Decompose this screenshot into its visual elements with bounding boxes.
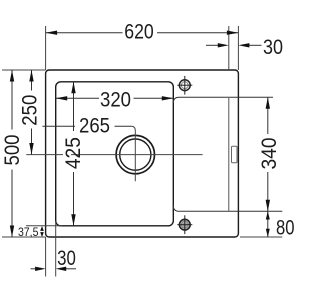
svg-text:265: 265 [79,115,110,138]
dimension 265 leader [42,125,131,127]
dimension 30 bottom lines [31,268,77,270]
tap hole crosshair bottom [177,215,192,234]
bowl outline [56,82,174,226]
dimension 37,5 arrows [40,226,44,237]
svg-text:30: 30 [263,36,283,59]
extension line: sink right edge extended up [237,26,239,70]
svg-text:30: 30 [57,247,76,270]
svg-text:340: 340 [258,138,281,170]
extension line: sink top edge extended left [2,69,46,71]
dimension 250 arrows [29,70,33,155]
dimension 620 arrows [46,31,239,35]
ledge top edge (with fillet to bowl, extends right as extension line) [173,97,273,103]
dimension 340 line [267,97,269,211]
svg-text:320: 320 [100,89,131,112]
dimension 80 line [267,211,269,237]
dimension 30 bottom arrows [35,267,66,271]
extension line: bowl left edge extended down [55,221,57,277]
svg-text:425: 425 [62,137,85,169]
dimension 30 top arrows [218,43,250,47]
dimension 320 arrows [56,96,174,100]
dimension 250 line [31,70,33,155]
drain outer circle [116,135,154,173]
dimension 425 arrows [71,82,75,226]
extension line: ledge inner edge extended up [228,26,230,70]
extension line: bowl bottom edge extended left [26,225,62,227]
dimension 500 arrows [10,70,14,237]
drain horizontal centerline [26,154,63,156]
overflow slot [232,146,238,163]
drain inner circle [120,139,151,170]
dimension 30 top lines [206,44,262,46]
extension line: sink left edge extended down [45,237,47,277]
dimension 320 line [56,97,174,99]
svg-text:80: 80 [276,216,295,239]
sink outer outline [46,70,239,237]
drain vertical centerline with 265 leader bend [131,126,135,181]
dimension 425 line [73,82,75,226]
svg-text:37,5: 37,5 [18,227,39,239]
svg-text:500: 500 [1,135,24,166]
dimension 500 line [11,70,13,237]
dimension 620 line [46,32,239,34]
svg-text:250: 250 [19,95,42,126]
dimension 80 arrows [266,211,270,237]
ledge inner right edge [228,98,230,211]
tap hole crosshair top [177,76,192,95]
extension line: sink left edge extended up [45,26,47,70]
extension line: sink bottom edge extended right [240,236,282,238]
dimension 340 arrows [266,97,270,211]
svg-text:620: 620 [124,21,154,44]
extension line: sink bottom edge extended left [2,236,46,238]
ledge bottom edge (with fillet to bowl, extends right as extension line) [173,206,282,212]
